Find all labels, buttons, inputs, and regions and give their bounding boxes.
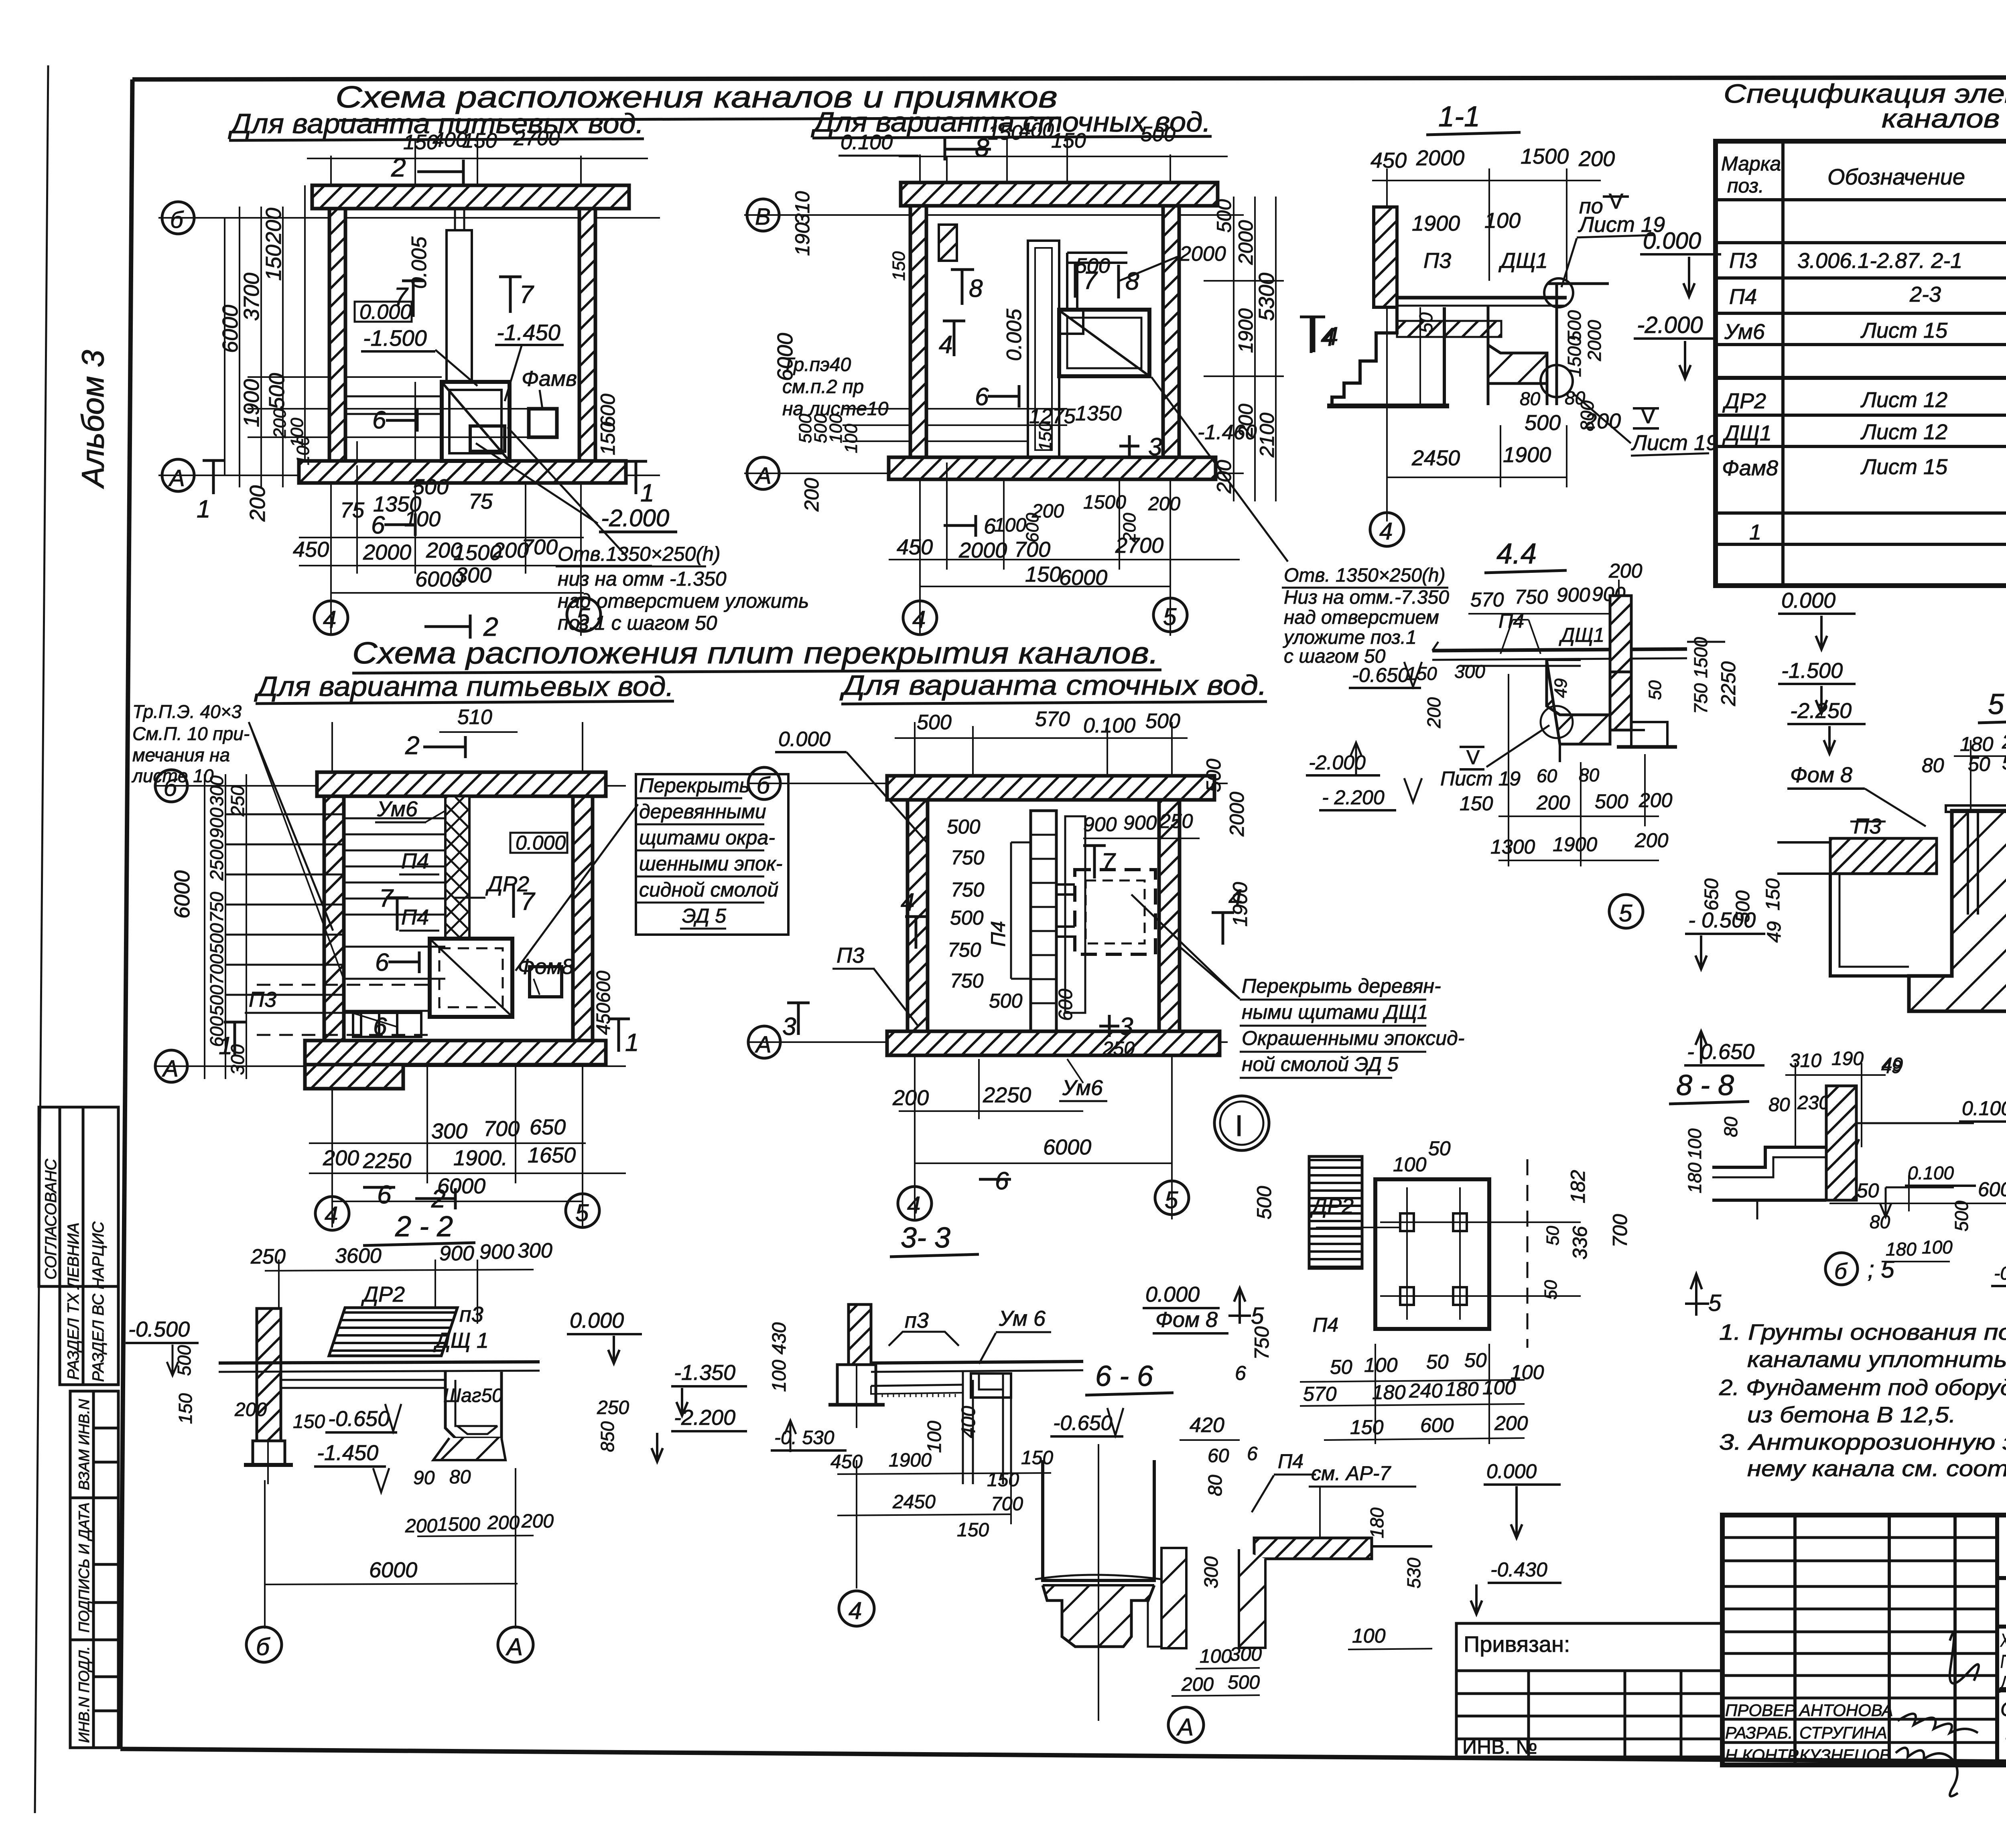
title block main grid: [1722, 1515, 2006, 1765]
svg-text:В: В: [755, 204, 771, 230]
svg-text:200: 200: [1494, 1412, 1528, 1434]
svg-text:500: 500: [989, 990, 1023, 1012]
svg-text:см. АР-7: см. АР-7: [1311, 1462, 1391, 1485]
svg-text:6 - 6: 6 - 6: [1095, 1360, 1153, 1392]
svg-text:1: 1: [1749, 520, 1761, 544]
svg-text:2450: 2450: [892, 1491, 936, 1513]
svg-text:См.П. 10 при-: См.П. 10 при-: [132, 723, 250, 744]
svg-text:8: 8: [975, 133, 989, 162]
plan4 covered pit (dashed): [1056, 870, 1155, 954]
section 6-6 funnel fundament: [1035, 1414, 1240, 1721]
spec table rows: [1722, 214, 2006, 544]
svg-text:150: 150: [1350, 1416, 1384, 1438]
svg-text:Лист 15: Лист 15: [1860, 455, 1948, 479]
plan4 marks: [782, 846, 1242, 1195]
section 6-6 level -0.650: [1050, 1408, 1123, 1436]
svg-text:150: 150: [957, 1519, 989, 1541]
svg-text:0.000: 0.000: [1145, 1282, 1200, 1306]
svg-text:Отв.1350×250(h): Отв.1350×250(h): [558, 543, 721, 565]
svg-text:500: 500: [1951, 1201, 1972, 1231]
svg-text:600: 600: [1420, 1414, 1454, 1436]
svg-text:5: 5: [575, 1199, 589, 1226]
svg-text:4: 4: [901, 889, 914, 916]
svg-text:150: 150: [462, 129, 497, 152]
section 6-6 right pit walls: [1148, 1548, 1186, 1648]
svg-text:336: 336: [1569, 1226, 1591, 1260]
plan1 walls: [299, 185, 629, 483]
svg-text:0.000: 0.000: [1781, 588, 1835, 613]
svg-text:1500: 1500: [437, 1514, 480, 1535]
svg-text:400: 400: [958, 1406, 979, 1438]
svg-text:8 - 8: 8 - 8: [1676, 1069, 1734, 1101]
spec table heading: [1724, 79, 2006, 133]
section 4-4 annotation left: [1282, 565, 1449, 667]
svg-text:7: 7: [1101, 848, 1116, 876]
svg-text:Ум6: Ум6: [377, 797, 418, 821]
section 3-3 axis bubble 4: [839, 1591, 874, 1626]
section 4-4 V Лист 19: [1440, 725, 1600, 790]
svg-text:0.005: 0.005: [1003, 308, 1026, 361]
plan4 annotation Перекрыть деревянными щитами ДЩ1: [1131, 895, 1464, 1078]
svg-text:Перекрыть деревян-: Перекрыть деревян-: [1242, 975, 1441, 997]
svg-text:700: 700: [522, 535, 558, 559]
section 2-2 level labels right: [567, 1308, 747, 1462]
svg-text:200: 200: [246, 485, 270, 522]
svg-text:п3: п3: [905, 1308, 929, 1333]
main title: Схема расположения каналов и приямков: [228, 80, 1212, 140]
svg-text:б: б: [757, 773, 771, 799]
svg-text:300: 300: [1201, 1556, 1222, 1588]
svg-text:300: 300: [431, 1119, 467, 1143]
svg-text:-1.500: -1.500: [1781, 659, 1843, 683]
svg-text:100: 100: [994, 515, 1026, 536]
svg-text:Шаг50: Шаг50: [443, 1385, 503, 1406]
6-6 right labels: [1252, 1450, 1561, 1649]
plan1 bottom section mark 2 and axis bubbles 4,5: [314, 598, 601, 641]
svg-text:1300: 1300: [1490, 836, 1535, 858]
section 5-5 top dims: [1922, 729, 2006, 780]
svg-text:ДЩ1: ДЩ1: [1559, 624, 1604, 646]
plan1 right rotated dims: [597, 394, 619, 455]
plan2 left rotated dims and note: [773, 191, 909, 512]
svg-text:над отверстием уложить: над отверстием уложить: [558, 590, 809, 612]
svg-text:Н.КОНТР: Н.КОНТР: [1725, 1746, 1799, 1765]
svg-text:1500: 1500: [1564, 336, 1585, 377]
section 5-5 title: [1978, 688, 2006, 723]
svg-text:500: 500: [1075, 254, 1110, 278]
svg-text:182: 182: [1567, 1170, 1589, 1203]
section 3-3 slab: [871, 1361, 1083, 1398]
svg-text:3: 3: [1119, 1013, 1133, 1041]
svg-text:500: 500: [206, 923, 227, 954]
svg-text:-2.000: -2.000: [1309, 751, 1366, 774]
section 8-8 stepped slab: [1712, 1147, 1826, 1219]
central pit plan: pit with anchor bolts: [1316, 1159, 1581, 1348]
plan2 bottom dims: [889, 463, 1240, 586]
svg-text:4: 4: [907, 1192, 920, 1219]
svg-text:ДР2: ДР2: [1310, 1194, 1354, 1218]
svg-text:6000: 6000: [218, 305, 242, 353]
svg-text:900: 900: [479, 1240, 514, 1264]
section 2-2 axis bubbles: [246, 1627, 533, 1662]
svg-text:100: 100: [293, 436, 313, 465]
svg-text:-2.200: -2.200: [674, 1406, 735, 1430]
plan2 axis lines: [744, 154, 1284, 636]
plan1 left dimension chains: [225, 207, 283, 487]
svg-text:Отв. 1350×250(h): Отв. 1350×250(h): [1284, 565, 1446, 586]
plan2 section mark 8 top: [945, 133, 991, 162]
svg-text:СОГЛАСОВАНС: СОГЛАСОВАНС: [42, 1158, 60, 1280]
svg-text:300: 300: [518, 1239, 552, 1262]
svg-text:1-1: 1-1: [1438, 101, 1480, 133]
svg-text:КУЗНЕЦОВ: КУЗНЕЦОВ: [1799, 1746, 1890, 1765]
svg-text:600: 600: [1023, 513, 1042, 542]
svg-text:400: 400: [1019, 119, 1054, 142]
title block signatures: [1896, 1633, 1979, 1796]
section 5-5 dims left rotated: [1701, 878, 1785, 943]
svg-text:ДЩ1: ДЩ1: [1722, 421, 1772, 445]
svg-text:мечания на: мечания на: [132, 744, 230, 765]
svg-text:ДЩ1: ДЩ1: [1498, 249, 1548, 273]
plan3 axis circles: [155, 770, 187, 1082]
svg-text:50: 50: [1543, 1226, 1563, 1246]
svg-text:6000: 6000: [415, 567, 463, 591]
svg-text:Лист 19: Лист 19: [1631, 431, 1718, 455]
svg-text:Фам8: Фам8: [1722, 456, 1778, 480]
svg-text:2: 2: [405, 731, 420, 760]
svg-text:Обозначение: Обозначение: [1827, 164, 1965, 189]
svg-text:80: 80: [1565, 387, 1586, 408]
svg-text:П4: П4: [1313, 1314, 1338, 1336]
svg-text:6000: 6000: [369, 1558, 417, 1582]
svg-text:250: 250: [227, 785, 248, 817]
svg-text:500: 500: [950, 907, 984, 929]
svg-text:230: 230: [1797, 1092, 1829, 1114]
svg-text:200: 200: [1234, 404, 1257, 438]
svg-text:1900: 1900: [1229, 882, 1251, 927]
plan1 section mark 2 top: [391, 152, 463, 184]
svg-text:-2.000: -2.000: [1637, 312, 1703, 338]
svg-text:2: 2: [483, 612, 498, 641]
svg-text:60: 60: [1537, 765, 1557, 786]
svg-text:деревянными: деревянными: [639, 800, 766, 823]
svg-text:1900.: 1900.: [453, 1146, 508, 1170]
svg-text:80: 80: [1520, 388, 1541, 409]
svg-text:700: 700: [483, 1117, 520, 1141]
svg-text:1900: 1900: [1553, 833, 1597, 856]
plan4 axis bubbles 4,5: [898, 1181, 1189, 1220]
svg-text:3.006.1-2.87. 2-1: 3.006.1-2.87. 2-1: [1797, 249, 1962, 273]
svg-text:900: 900: [1557, 584, 1590, 606]
svg-text:50: 50: [1645, 680, 1665, 700]
svg-text:б: б: [256, 1633, 270, 1660]
svg-text:1350: 1350: [1075, 402, 1122, 425]
section 1-1 top dim chain: [1372, 168, 1601, 521]
svg-text:600: 600: [1055, 989, 1076, 1021]
svg-text:600: 600: [1978, 1178, 2006, 1201]
svg-text:см.п.2 пр: см.п.2 пр: [782, 376, 864, 398]
svg-text:3700: 3700: [240, 273, 264, 321]
svg-text:П3: П3: [1854, 814, 1881, 838]
svg-text:750: 750: [206, 892, 227, 923]
plan3 bottom small plates: [353, 1013, 421, 1037]
svg-text:5 - 5: 5 - 5: [1988, 688, 2006, 720]
svg-text:0.000: 0.000: [516, 832, 566, 854]
svg-text:-0. 530: -0. 530: [774, 1427, 834, 1448]
svg-text:0.000: 0.000: [570, 1308, 624, 1333]
left sidebar stamp boxes top group: [39, 1107, 118, 1385]
section 1-1 pit with hatched base: [1488, 278, 1609, 405]
svg-text:750: 750: [950, 970, 984, 992]
svg-text:; 5: ; 5: [1868, 1256, 1894, 1283]
svg-text:150: 150: [1762, 878, 1784, 911]
svg-text:500: 500: [265, 373, 289, 409]
svg-text:7: 7: [520, 281, 534, 308]
section 1-1 labels: [1411, 189, 1721, 470]
svg-text:49: 49: [1764, 921, 1785, 943]
svg-text:4: 4: [939, 331, 952, 359]
svg-text:190: 190: [791, 222, 814, 256]
plan4 П3 label: [832, 943, 919, 1027]
svg-text:80: 80: [449, 1467, 471, 1488]
svg-text:180: 180: [1372, 1381, 1406, 1404]
svg-text:900: 900: [439, 1242, 474, 1265]
svg-text:I: I: [1235, 1109, 1243, 1142]
plan1 level texts: [355, 236, 677, 532]
svg-text:ДР2: ДР2: [361, 1282, 405, 1306]
plan2 interior duct: [1028, 241, 1059, 457]
svg-text:1900: 1900: [1503, 443, 1551, 467]
svg-text:500: 500: [1213, 199, 1235, 233]
svg-text:уложите поз.1: уложите поз.1: [1283, 627, 1417, 648]
svg-text:-1.350: -1.350: [674, 1361, 735, 1385]
svg-text:0.000: 0.000: [778, 728, 830, 751]
plan1 pit (приямок): [442, 382, 510, 461]
section 5-5 Фам8 label: [1787, 763, 1926, 826]
plan3 bottom marks and bubbles: [315, 1180, 599, 1230]
plan1 axis lines: [158, 156, 660, 636]
svg-text:Лист 12: Лист 12: [1860, 388, 1947, 412]
svg-text:4: 4: [912, 606, 926, 633]
svg-text:каналов и приямков.: каналов и приямков.: [1882, 103, 2006, 133]
section 2-2 slab lines: [219, 1362, 540, 1388]
svg-text:ХЛОРАТОРНАЯ ДЛЯ ОБЕЗЗАРАЖИВАНИ: ХЛОРАТОРНАЯ ДЛЯ ОБЕЗЗАРАЖИВАНИЯ: [2000, 1630, 2006, 1651]
central pit plan labels: [1235, 1137, 1631, 1438]
svg-text:49: 49: [1551, 678, 1571, 698]
section 1-1 title: [1426, 101, 1521, 135]
plan4 central plate strip with rungs: [1011, 811, 1085, 1031]
plan4 walls: [887, 776, 1220, 1055]
svg-text:100: 100: [1200, 1646, 1232, 1667]
title block texts: [1725, 1534, 2006, 1766]
svg-text:4: 4: [1379, 518, 1393, 545]
svg-text:600: 600: [593, 971, 614, 1003]
svg-text:ной смолой ЭД 5: ной смолой ЭД 5: [1242, 1053, 1399, 1075]
section 2-2 top dims: [250, 1239, 552, 1268]
svg-text:100: 100: [924, 1421, 945, 1453]
svg-text:2000: 2000: [363, 540, 411, 564]
svg-text:500: 500: [174, 1345, 195, 1376]
svg-text:240: 240: [1409, 1379, 1443, 1402]
section 5-5 П3 label: [1850, 814, 1886, 838]
svg-text:300: 300: [206, 775, 227, 806]
svg-text:1. Грунты основания под фунда: 1. Грунты основания под фундаментом под …: [1719, 1319, 2006, 1345]
section 2-2 foundation left: [244, 1441, 293, 1484]
svg-text:530: 530: [1403, 1558, 1424, 1588]
svg-text:Фамв: Фамв: [522, 367, 577, 391]
svg-text:500: 500: [1525, 411, 1561, 435]
svg-text:750: 750: [1251, 1326, 1273, 1360]
svg-text:2100: 2100: [1256, 413, 1278, 458]
plan1 bottom dimension chains: [299, 465, 652, 593]
plan3 Фам8 box: [530, 967, 562, 997]
section 3-3 labels: [889, 1306, 1051, 1364]
svg-text:700: 700: [1609, 1214, 1631, 1248]
svg-text:200: 200: [892, 1086, 929, 1110]
svg-text:2-3: 2-3: [1909, 282, 1941, 306]
plan2 interior labels and marks: [939, 264, 1162, 461]
plan2 right rotated dim chains: [1234, 197, 1276, 501]
section 4-4 hatched wall column: [1610, 596, 1631, 672]
svg-text:5: 5: [1165, 1187, 1178, 1213]
svg-text:П3: П3: [837, 943, 864, 968]
plan4 left interior dim labels: [947, 815, 1023, 1012]
plan1 interior partition / channel: [345, 209, 472, 414]
svg-text:4: 4: [849, 1597, 862, 1624]
svg-text:Ум6: Ум6: [1724, 320, 1765, 344]
plan3 walls: [305, 772, 606, 1089]
svg-text:50: 50: [2002, 751, 2006, 774]
section 1-1 stepped foundation: [1327, 307, 1449, 406]
svg-text:Лист 15: Лист 15: [1860, 318, 1948, 343]
plan2 walls: [889, 183, 1218, 479]
svg-text:500: 500: [1228, 1672, 1260, 1693]
svg-text:П4: П4: [1729, 285, 1757, 309]
svg-text:п3: п3: [459, 1302, 483, 1327]
central pit plan: ДР2 grate strip: [1309, 1156, 1362, 1268]
plan1 annotation Отв.1350х250: [508, 427, 809, 634]
section 5-5 bottom dims: [1829, 1175, 2006, 1211]
svg-text:СХЕМА РАСПОЛОЖЕНИЯ: СХЕМА РАСПОЛОЖЕНИЯ: [2000, 1698, 2006, 1720]
svg-text:б: б: [170, 207, 184, 233]
svg-text:6: 6: [1235, 1362, 1246, 1384]
section 1-1 T4 mark left: [1300, 317, 1335, 353]
svg-text:- 2.200: - 2.200: [1322, 786, 1385, 809]
svg-text:50: 50: [1415, 312, 1436, 333]
svg-text:щитами окра-: щитами окра-: [639, 826, 775, 849]
svg-text:200: 200: [1181, 1674, 1214, 1695]
svg-text:50: 50: [1330, 1356, 1352, 1378]
svg-text:50: 50: [1426, 1351, 1449, 1373]
svg-text:ВЗАМ ИНВ.N: ВЗАМ ИНВ.N: [76, 1399, 92, 1490]
svg-text:1900: 1900: [1234, 308, 1257, 353]
svg-text:из бетона В 12,5.: из бетона В 12,5.: [1747, 1402, 1956, 1427]
svg-text:-1.450: -1.450: [317, 1441, 378, 1465]
svg-text:240: 240: [2002, 730, 2006, 753]
section 8-8 title: [1669, 1069, 1749, 1104]
svg-text:500: 500: [1595, 790, 1628, 813]
svg-text:-0.430: -0.430: [1490, 1558, 1547, 1581]
svg-text:5: 5: [1708, 1290, 1722, 1316]
section 5-5 big hatched foundation mass: [1909, 805, 2006, 1011]
section 2-2 ДР2 grate plate: [329, 1282, 489, 1356]
plan3 axis lines: [156, 722, 626, 1227]
svg-text:200: 200: [1639, 789, 1673, 811]
svg-text:3: 3: [1148, 433, 1162, 461]
svg-text:4.4: 4.4: [1496, 538, 1537, 570]
spec table header texts: [1721, 144, 2006, 202]
svg-text:на листе10: на листе10: [782, 398, 889, 420]
plan3 section marks 7 6 1: [219, 884, 639, 1060]
svg-text:6: 6: [1247, 1443, 1258, 1465]
svg-text:1350: 1350: [373, 492, 421, 516]
svg-text:310: 310: [791, 191, 814, 225]
svg-text:0.100: 0.100: [841, 131, 893, 154]
svg-text:150: 150: [889, 251, 909, 281]
svg-text:поз.1 с шагом 50: поз.1 с шагом 50: [558, 612, 717, 634]
svg-text:150: 150: [262, 245, 286, 281]
svg-text:0.100: 0.100: [1908, 1162, 1954, 1183]
left sidebar: Альбом 3: [75, 350, 110, 489]
svg-text:500: 500: [947, 815, 981, 838]
svg-text:150: 150: [293, 1411, 325, 1432]
svg-text:поз.: поз.: [1727, 174, 1764, 197]
title block attachment table (Привязан): [1456, 1623, 1722, 1757]
svg-text:2700: 2700: [513, 127, 560, 150]
svg-text:Ум6: Ум6: [1062, 1076, 1103, 1100]
svg-text:сидной смолой: сидной смолой: [639, 878, 778, 901]
svg-text:Тр.П.Э. 40×3: Тр.П.Э. 40×3: [132, 701, 242, 722]
svg-text:420: 420: [1190, 1414, 1224, 1437]
left sidebar stamp boxes bottom group: [70, 1391, 118, 1748]
sidebar rotated texts: СОГЛАСОВАНО / РАЗДЕЛ ТХ ЛЕВИНА / РАЗДЕЛ ВС НАРЦИССОВА: [42, 1158, 107, 1382]
svg-text:200: 200: [405, 1515, 437, 1537]
svg-text:ИНВ. №: ИНВ. №: [1462, 1736, 1537, 1758]
svg-text:100 430: 100 430: [769, 1322, 790, 1392]
svg-text:РАЗРАБ.: РАЗРАБ.: [1725, 1723, 1793, 1742]
svg-text:200: 200: [1148, 493, 1180, 515]
plan2 axis bubbles 4,5: [903, 598, 1187, 635]
section 8-8 dims: [1684, 1116, 2006, 1286]
svg-text:6: 6: [372, 406, 386, 434]
section 8-8 top dims: [1768, 1048, 1903, 1116]
svg-text:2250: 2250: [363, 1149, 411, 1173]
svg-text:100: 100: [1484, 209, 1521, 233]
svg-text:Окрашенными эпоксид-: Окрашенными эпоксид-: [1242, 1027, 1464, 1049]
svg-text:2000: 2000: [1584, 320, 1605, 361]
section 2-2 title: [363, 1211, 475, 1246]
svg-text:150: 150: [1035, 422, 1055, 451]
svg-text:1: 1: [625, 1029, 639, 1057]
svg-text:Низ на отм.-7.350: Низ на отм.-7.350: [1284, 587, 1449, 608]
svg-text:250: 250: [1159, 810, 1193, 832]
section 2-2 wall column hatched: [257, 1308, 281, 1441]
svg-text:Марка: Марка: [1721, 152, 1781, 175]
plan4 right rotated dims: [1202, 759, 1251, 927]
svg-text:150: 150: [1460, 792, 1493, 815]
section 4-4 top dims: [1470, 560, 1643, 646]
svg-text:200: 200: [1536, 791, 1570, 814]
svg-text:-2.250: -2.250: [1790, 699, 1852, 723]
svg-text:Фом 8: Фом 8: [1155, 1308, 1218, 1332]
svg-text:3600: 3600: [335, 1244, 382, 1268]
section 2-2 level labels left: [126, 1317, 503, 1492]
svg-text:ДЩ 1: ДЩ 1: [433, 1329, 489, 1353]
svg-text:АНТОНОВА: АНТОНОВА: [1798, 1701, 1893, 1720]
svg-text:2000: 2000: [1179, 242, 1226, 266]
svg-text:V: V: [1466, 746, 1480, 769]
plan2 top dimension chain: [899, 138, 1228, 183]
